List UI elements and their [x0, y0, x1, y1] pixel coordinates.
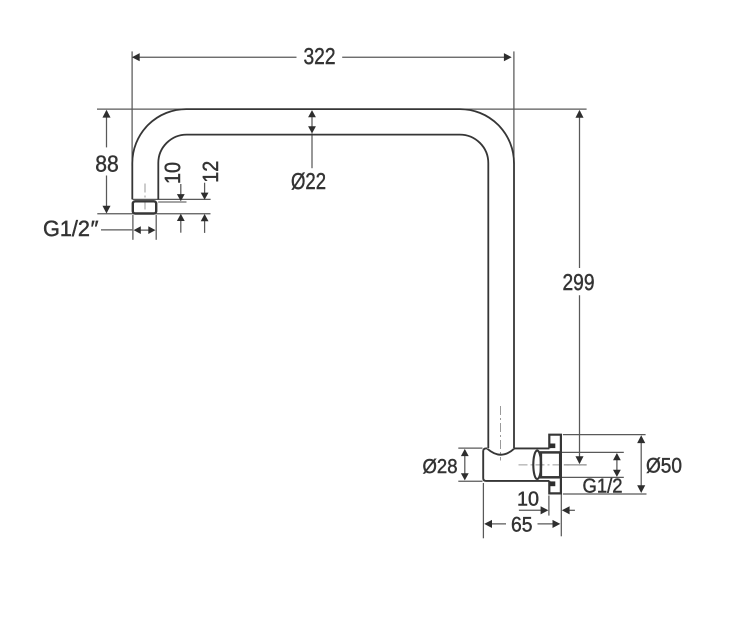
svg-text:Ø28: Ø28: [423, 456, 458, 478]
svg-text:Ø22: Ø22: [291, 168, 326, 194]
svg-text:G1/2: G1/2: [43, 216, 90, 241]
svg-text:65: 65: [511, 513, 533, 536]
svg-text:10: 10: [160, 162, 185, 184]
svg-text:299: 299: [563, 269, 595, 295]
svg-text:322: 322: [304, 43, 336, 69]
svg-text:G1/2: G1/2: [583, 476, 623, 498]
svg-text:88: 88: [95, 150, 119, 176]
svg-text:12: 12: [198, 161, 223, 183]
svg-text:Ø50: Ø50: [646, 455, 682, 478]
svg-text:10: 10: [517, 489, 539, 511]
svg-text:″: ″: [90, 216, 99, 241]
